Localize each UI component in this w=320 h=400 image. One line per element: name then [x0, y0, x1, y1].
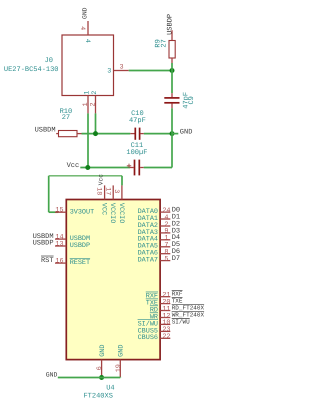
svg-text:USBDM: USBDM — [35, 126, 56, 134]
svg-text:4: 4 — [78, 26, 86, 30]
svg-text:RESET: RESET — [70, 259, 90, 267]
svg-text:22: 22 — [162, 333, 170, 341]
svg-text:100µF: 100µF — [126, 149, 147, 157]
svg-text:CBUS6: CBUS6 — [138, 334, 158, 342]
svg-text:3: 3 — [112, 189, 120, 193]
svg-text:VCC: VCC — [100, 203, 108, 215]
svg-text:USBDP: USBDP — [33, 240, 54, 248]
svg-text:19: 19 — [115, 364, 123, 372]
svg-text:RD_FT240X: RD_FT240X — [172, 305, 205, 312]
svg-text:GND: GND — [46, 372, 58, 379]
svg-text:3: 3 — [119, 64, 123, 72]
svg-text:GND: GND — [99, 345, 107, 357]
svg-text:RST: RST — [41, 257, 54, 265]
svg-text:UE27-BC54-130: UE27-BC54-130 — [4, 66, 59, 74]
svg-text:13: 13 — [55, 240, 63, 248]
svg-text:16: 16 — [55, 258, 63, 266]
svg-text:6: 6 — [96, 366, 104, 370]
svg-text:VCCIO: VCCIO — [108, 203, 116, 223]
svg-text:SI/WU: SI/WU — [172, 318, 190, 325]
svg-text:3: 3 — [107, 68, 111, 76]
svg-text:2: 2 — [89, 102, 97, 106]
svg-text:18: 18 — [95, 187, 103, 195]
svg-text:GND: GND — [118, 345, 126, 357]
svg-text:GND: GND — [82, 7, 89, 19]
svg-text:DATA7: DATA7 — [138, 257, 158, 265]
svg-text:VCCIO: VCCIO — [117, 203, 125, 223]
svg-text:27: 27 — [160, 39, 168, 47]
svg-text:FT240XS: FT240XS — [83, 392, 112, 400]
svg-text:J0: J0 — [45, 57, 53, 65]
svg-text:USBDP: USBDP — [167, 14, 175, 35]
svg-text:GND: GND — [180, 128, 193, 136]
svg-text:5: 5 — [164, 255, 168, 263]
svg-text:C9: C9 — [188, 96, 196, 104]
svg-text:Vcc: Vcc — [97, 174, 104, 185]
svg-text:47pF: 47pF — [129, 117, 146, 125]
svg-text:2: 2 — [91, 91, 99, 95]
svg-text:3V3OUT: 3V3OUT — [70, 208, 94, 216]
svg-text:15: 15 — [55, 207, 63, 215]
svg-text:USBDP: USBDP — [70, 242, 90, 250]
svg-text:17: 17 — [103, 187, 111, 195]
svg-text:4: 4 — [83, 39, 91, 43]
svg-text:U4: U4 — [106, 384, 114, 392]
svg-text:D7: D7 — [172, 255, 180, 263]
svg-text:Vcc: Vcc — [67, 162, 80, 170]
svg-text:27: 27 — [62, 114, 70, 122]
